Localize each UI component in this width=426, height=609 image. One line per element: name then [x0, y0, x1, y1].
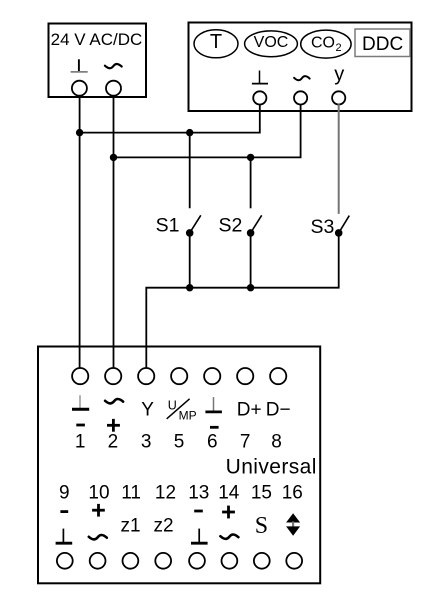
wire: ground bus (horizontal) to controller ground	[80, 104, 260, 132]
AC symbol at pin 14	[220, 535, 238, 539]
power supply box 24 V AC/DC	[49, 24, 147, 98]
junction: ground bus at supply wire	[76, 129, 83, 136]
ground symbol at pin 1	[72, 395, 89, 409]
svg-text:Universal: Universal	[226, 455, 317, 478]
minus sign at pin 6	[210, 426, 219, 429]
wire: switch output bus to actuator terminal 3	[146, 233, 338, 368]
sensor oval T	[194, 30, 238, 58]
terminal circle: controller AC	[294, 91, 307, 104]
svg-text:T: T	[210, 31, 222, 53]
svg-text:6: 6	[207, 432, 218, 453]
terminal circle: actuator pin 5 (top row)	[171, 368, 187, 384]
AC symbol at pin 10	[89, 535, 107, 539]
ground symbol (supply minus terminal)	[71, 59, 88, 72]
terminal circle: actuator pin 3 (top row)	[138, 368, 154, 384]
terminal circle: actuator pin 1 (top row)	[72, 368, 88, 384]
svg-text:2: 2	[336, 42, 342, 54]
svg-text:7: 7	[240, 432, 251, 453]
AC symbol (supply phase terminal)	[105, 64, 122, 68]
terminal circle: controller y output	[332, 91, 345, 104]
ground symbol (controller ground terminal)	[252, 71, 268, 84]
wire: S2 bottom to bus	[250, 233, 252, 288]
DDC label box	[355, 29, 410, 57]
svg-text:10: 10	[88, 482, 109, 503]
junction: output bus at S1	[186, 284, 193, 291]
svg-text:S2: S2	[218, 215, 242, 237]
wire: S1 bottom to bus	[189, 233, 191, 288]
minus sign at pin 9	[60, 510, 68, 513]
terminal circle: actuator pin 2 (top row)	[105, 368, 121, 384]
label U/MP at pin 5	[167, 399, 197, 423]
terminal circle: actuator pin 16 (bottom row)	[286, 553, 302, 569]
minus sign at pin 1	[76, 424, 85, 427]
minus sign at pin 13	[194, 510, 203, 513]
ground symbol at pin 9	[56, 529, 73, 544]
terminal circle: actuator pin 6 (top row)	[204, 368, 220, 384]
svg-text:S1: S1	[156, 215, 180, 237]
ground symbol at pin 13	[191, 529, 208, 544]
terminal circle: actuator pin 15 (bottom row)	[254, 553, 270, 569]
terminal circle: actuator pin 7 (top row)	[237, 368, 253, 384]
switch S3	[310, 216, 349, 238]
junction: ground bus at switch S1	[186, 129, 193, 136]
controller box (T / VOC / CO2 / DDC)	[189, 23, 412, 112]
svg-text:9: 9	[59, 482, 70, 503]
svg-text:11: 11	[121, 482, 141, 503]
terminal circle: actuator pin 8 (top row)	[270, 368, 286, 384]
terminal circle: controller ground	[253, 91, 266, 104]
AC symbol (controller phase terminal)	[294, 76, 310, 80]
terminal circle: actuator pin 10 (bottom row)	[90, 553, 106, 569]
plus sign at pin 10	[92, 504, 105, 517]
switch S2	[218, 157, 261, 236]
svg-text:DDC: DDC	[362, 34, 403, 55]
svg-text:1: 1	[75, 432, 86, 453]
terminal circle: actuator pin 11 (bottom row)	[122, 553, 138, 569]
svg-text:14: 14	[218, 482, 240, 503]
svg-text:3: 3	[141, 432, 152, 453]
wire: AC bus (horizontal) to controller AC	[114, 104, 301, 157]
svg-text:16: 16	[282, 482, 303, 503]
terminal circle: actuator pin 13 (bottom row)	[189, 553, 205, 569]
svg-text:D−: D−	[266, 399, 291, 420]
terminal circle: actuator pin 12 (bottom row)	[155, 553, 171, 569]
actuator box Universal	[38, 347, 320, 584]
junction: AC bus at switch S2	[247, 154, 254, 161]
svg-text:y: y	[334, 64, 344, 86]
svg-text:VOC: VOC	[254, 34, 289, 51]
terminal circle: supply ground	[72, 81, 87, 96]
sensor oval CO2	[301, 30, 351, 58]
junction: output bus at S2	[247, 284, 254, 291]
svg-text:Y: Y	[141, 399, 154, 420]
wire: supply AC down to actuator terminal 2	[113, 96, 115, 369]
switch S1	[156, 133, 201, 237]
svg-text:5: 5	[174, 432, 185, 453]
wire: supply ground down to actuator terminal 1	[79, 96, 81, 369]
double arrow symbol at pin 16	[286, 513, 300, 536]
svg-text:S: S	[255, 513, 268, 539]
svg-text:13: 13	[188, 482, 209, 503]
terminal circle: actuator pin 14 (bottom row)	[222, 553, 238, 569]
svg-text:z1: z1	[121, 516, 141, 537]
ground symbol at pin 6	[205, 397, 222, 412]
svg-text:CO: CO	[311, 34, 335, 51]
sensor oval VOC	[245, 31, 298, 57]
svg-text:15: 15	[251, 482, 272, 503]
svg-text:24 V AC/DC: 24 V AC/DC	[51, 30, 143, 49]
plus sign at pin 14	[222, 506, 235, 519]
svg-text:8: 8	[271, 432, 282, 453]
terminal circle: supply AC	[106, 81, 121, 96]
svg-text:S3: S3	[310, 216, 334, 238]
svg-text:z2: z2	[154, 516, 174, 537]
svg-text:MP: MP	[179, 409, 197, 423]
svg-text:D+: D+	[237, 399, 262, 420]
plus sign at pin 2	[107, 419, 120, 432]
AC symbol at pin 2	[105, 399, 123, 403]
svg-text:12: 12	[155, 482, 176, 503]
svg-text:2: 2	[108, 432, 119, 453]
terminal circle: actuator pin 9 (bottom row)	[57, 553, 73, 569]
wire: y output down to switch S3 (gray)	[338, 104, 340, 214]
junction: AC bus at supply wire	[110, 154, 117, 161]
